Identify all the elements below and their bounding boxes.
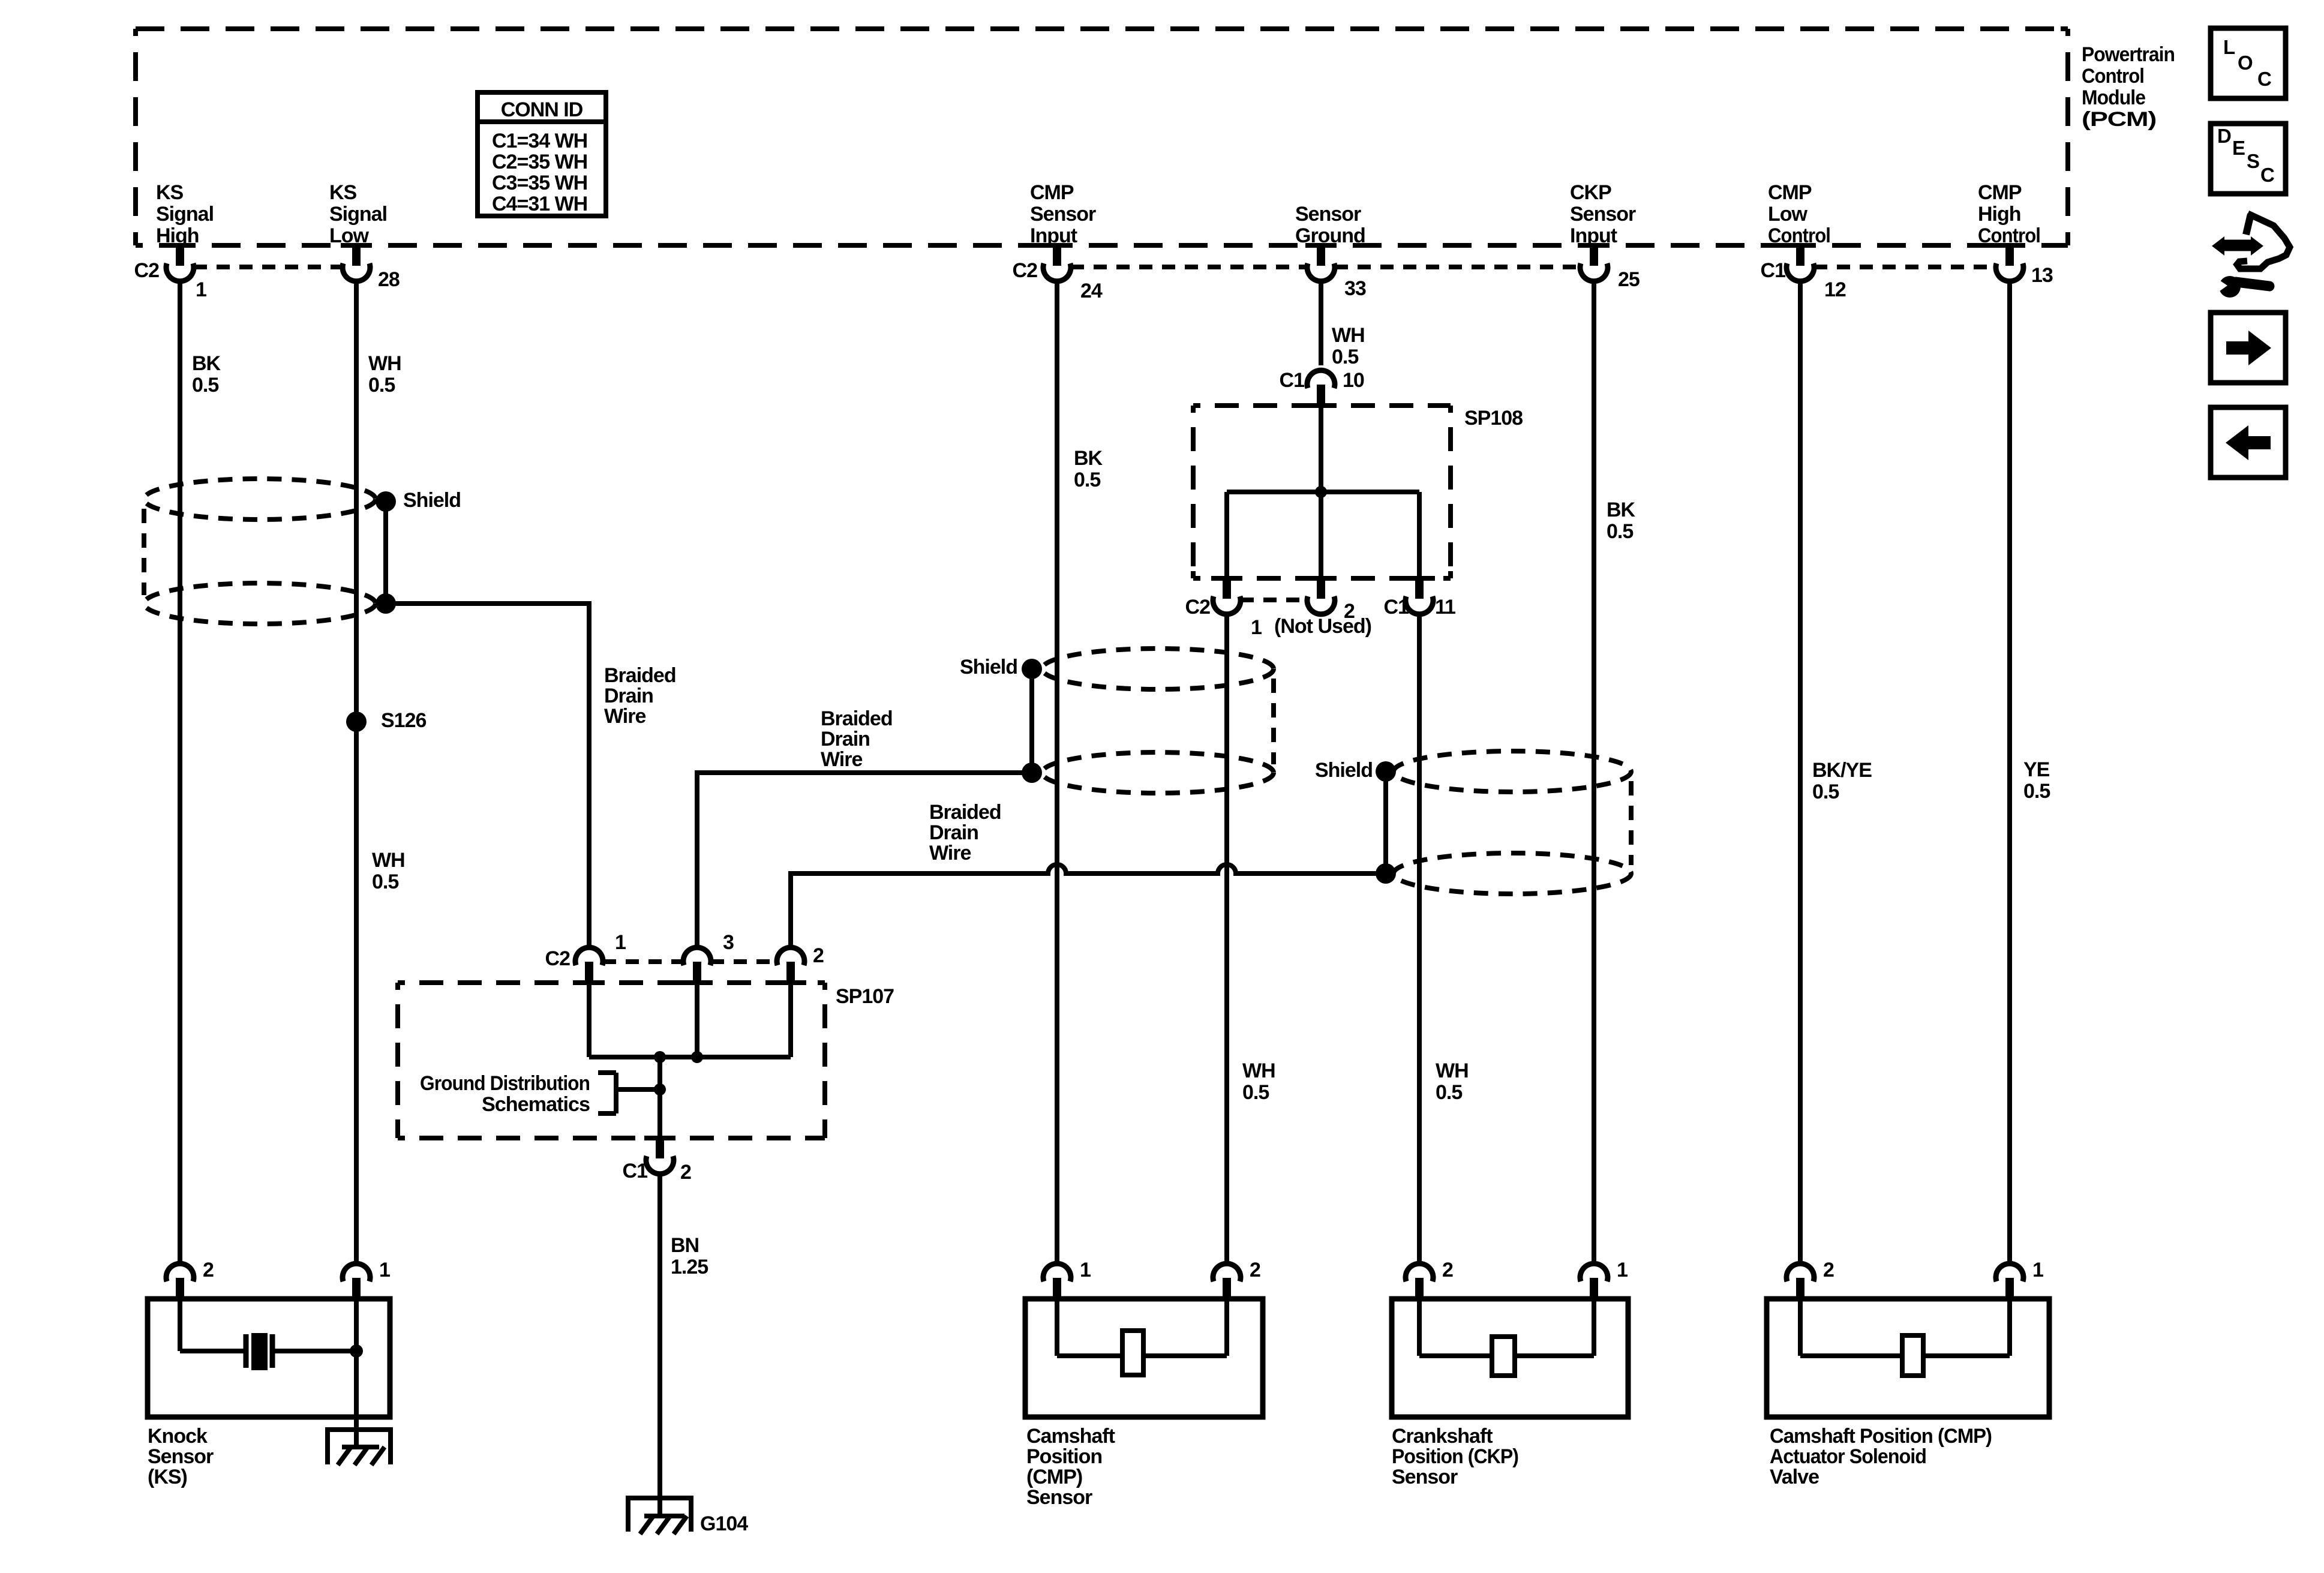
wire CMP Low Control BK/YE 0.5 (C1-12 to solenoid pin 2) [1798, 281, 1803, 1263]
svg-text:O: O [2238, 52, 2253, 74]
wire KS Signal Low WH 0.5 (28 to KS pin 1) [354, 281, 359, 1263]
wire SP107 pin1 to bus [587, 983, 591, 1057]
connector solenoid pin 2 [1786, 1263, 1814, 1301]
svg-text:Braided: Braided [929, 801, 1001, 824]
svg-text:D: D [2217, 125, 2232, 147]
svg-text:SP108: SP108 [1464, 407, 1523, 430]
svg-text:Sensor: Sensor [1392, 1466, 1458, 1488]
junction KS internal [350, 1344, 363, 1358]
svg-text:C1=34 WH: C1=34 WH [492, 130, 587, 152]
connector PCM pin 13 (CMP High Control) [1996, 243, 2023, 281]
connector PCM C2 pin 1 (KS Signal High) [166, 243, 194, 281]
svg-text:(Not Used): (Not Used) [1274, 615, 1371, 638]
svg-text:Knock: Knock [148, 1425, 208, 1448]
svg-text:Signal: Signal [156, 203, 214, 226]
node KS Signal Low label [329, 181, 387, 247]
svg-text:33: 33 [1344, 277, 1366, 300]
junction shield top (CKP) [1376, 761, 1396, 782]
wire SP108 bus to pin 11 [1417, 492, 1422, 578]
connector bar C1 pins 12-13 [1814, 265, 1996, 269]
splice pack SP108 dashed box [1193, 406, 1451, 578]
svg-text:1: 1 [379, 1259, 390, 1281]
wire SP107 pin3 to bus [695, 983, 699, 1057]
wire CMP High Control YE 0.5 (13 to solenoid pin 1) [2007, 281, 2012, 1263]
svg-text:0.5: 0.5 [2023, 780, 2050, 803]
connector bar pins 24-33-25 [1071, 265, 1307, 269]
svg-text:High: High [1978, 203, 2021, 226]
svg-text:WH: WH [1436, 1059, 1469, 1082]
icon back arrow button [2211, 407, 2286, 478]
value label BK 0.5 [192, 352, 221, 397]
svg-text:1: 1 [1251, 616, 1262, 639]
svg-text:1: 1 [1617, 1259, 1628, 1281]
svg-text:Braided: Braided [821, 707, 893, 730]
wire braided drain (CMP) to SP107 pin 3 [697, 773, 1032, 945]
svg-text:2: 2 [1250, 1259, 1260, 1281]
node Sensor Ground label [1295, 203, 1365, 247]
wire SP107 pin2 to bus [788, 983, 793, 1057]
svg-text:C1: C1 [1384, 596, 1409, 619]
shield cylinder around CMP wires [1042, 649, 1274, 793]
node CMP Sensor Input label [1030, 181, 1096, 247]
wire SP107 ground branch [657, 1057, 662, 1138]
svg-text:KS: KS [156, 181, 184, 204]
junction shield top (CMP) [1022, 659, 1042, 679]
svg-text:C2: C2 [545, 947, 571, 970]
component Knock Sensor (KS) box [148, 1299, 390, 1417]
svg-text:2: 2 [1823, 1259, 1834, 1281]
node KS Signal High label [156, 181, 214, 247]
svg-text:Shield: Shield [960, 656, 1017, 679]
connector C1 pin 2 (below SP107) [646, 1136, 674, 1174]
wire shield link (KS) [383, 502, 388, 604]
svg-text:Module: Module [2082, 86, 2145, 109]
value label WH 0.5 [1436, 1059, 1469, 1104]
solenoid internal element [1800, 1299, 2010, 1376]
svg-text:12: 12 [1824, 278, 1846, 301]
svg-text:Crankshaft: Crankshaft [1392, 1425, 1493, 1448]
svg-text:Sensor: Sensor [148, 1445, 214, 1468]
svg-text:C2: C2 [1013, 259, 1038, 282]
connector SP108 pin 2 (Not Used) [1307, 576, 1335, 614]
svg-text:C2=35 WH: C2=35 WH [492, 151, 587, 173]
svg-text:Ground Distribution: Ground Distribution [420, 1072, 590, 1095]
wire shield link (CMP) [1029, 669, 1034, 773]
svg-text:Shield: Shield [403, 489, 461, 512]
value label WH 0.5 [368, 352, 401, 397]
PCM label text [2082, 43, 2175, 131]
wire BN 1.25 to G104 [657, 1173, 662, 1496]
svg-text:CMP: CMP [1978, 181, 2022, 204]
wire WH 0.5 (SP108 C2-1 to CMP pin 2) [1224, 614, 1229, 1263]
wire WH 0.5 (SP108 C1-11 to CKP pin 2) [1417, 614, 1422, 1263]
wire Sensor Ground WH 0.5 (33 to SP108 C1-10) [1319, 281, 1323, 365]
label CMP Actuator Solenoid Valve [1770, 1425, 1992, 1488]
icon DESC button [2211, 124, 2286, 194]
svg-text:Sensor: Sensor [1570, 203, 1636, 226]
svg-text:KS: KS [329, 181, 357, 204]
svg-text:S: S [2247, 150, 2260, 172]
svg-text:2: 2 [203, 1259, 214, 1281]
wire CMP Sensor Input BK 0.5 (C2-24 to CMP pin 1) [1055, 281, 1059, 1263]
svg-text:2: 2 [1442, 1259, 1453, 1281]
wire braided drain (KS) to SP107 pin 1 [386, 604, 589, 945]
wire SP108 bus to pin 1 [1224, 492, 1229, 578]
svg-text:BK: BK [192, 352, 221, 375]
ground (KS case) [325, 1430, 393, 1465]
value label BK 0.5 [1074, 447, 1103, 491]
svg-text:WH: WH [1332, 324, 1365, 347]
svg-text:(KS): (KS) [148, 1466, 187, 1488]
svg-text:CKP: CKP [1570, 181, 1611, 204]
svg-text:C3=35 WH: C3=35 WH [492, 172, 587, 194]
svg-text:BK: BK [1607, 499, 1636, 521]
junction shield bottom (CMP) [1022, 763, 1042, 783]
label Braided Drain Wire (CMP) [821, 707, 893, 771]
svg-text:YE: YE [2023, 758, 2050, 781]
svg-text:BK/YE: BK/YE [1812, 759, 1872, 782]
svg-text:WH: WH [372, 849, 405, 872]
node CMP High Control label [1978, 181, 2040, 247]
junction ground branch / reference [654, 1083, 666, 1095]
svg-text:Control: Control [2082, 65, 2144, 88]
svg-text:2: 2 [680, 1161, 691, 1184]
junction shield bottom (KS) [376, 593, 396, 614]
svg-text:Drain: Drain [821, 728, 870, 751]
svg-text:C4=31 WH: C4=31 WH [492, 193, 587, 215]
svg-text:13: 13 [2031, 264, 2053, 287]
connector bar SP108 pins 1-2 [1241, 598, 1307, 602]
svg-text:SP107: SP107 [836, 985, 894, 1008]
svg-text:1: 1 [196, 278, 206, 301]
svg-text:1: 1 [2032, 1259, 2043, 1281]
svg-text:Wire: Wire [929, 842, 971, 864]
svg-text:CMP: CMP [1768, 181, 1812, 204]
Powertrain Control Module (PCM) dashed box [136, 29, 2068, 245]
value label WH 0.5 [1242, 1059, 1275, 1104]
connector KS pin 1 [343, 1263, 370, 1301]
wire SP108 input to bus [1319, 406, 1323, 492]
connector C1 pin 10 (above SP108) [1307, 370, 1335, 408]
svg-text:Camshaft Position (CMP): Camshaft Position (CMP) [1770, 1425, 1992, 1448]
splice S126 [346, 712, 367, 732]
icon schematic navigation (car + wrench) [2212, 214, 2290, 298]
svg-text:WH: WH [1242, 1059, 1275, 1082]
svg-text:0.5: 0.5 [372, 870, 398, 893]
svg-text:Powertrain: Powertrain [2082, 43, 2175, 66]
piezo element inside knock sensor [180, 1299, 356, 1370]
svg-text:E: E [2232, 137, 2245, 159]
svg-text:(CMP): (CMP) [1026, 1466, 1082, 1488]
wire braided drain (CKP) to SP107 pin 2, hops over CMP wires [791, 864, 1386, 945]
connector bar C2 pins 1-28 [194, 265, 343, 269]
connector PCM C1 pin 12 (CMP Low Control) [1786, 243, 1814, 281]
svg-text:CMP: CMP [1030, 181, 1074, 204]
wire shield link (CKP) [1383, 772, 1388, 873]
junction shield top (KS) [376, 491, 396, 512]
svg-text:0.5: 0.5 [1812, 781, 1839, 803]
junction SP107 bus / ground tap [654, 1051, 666, 1063]
CONN ID table [478, 92, 606, 216]
svg-text:C: C [2260, 164, 2275, 186]
svg-text:Drain: Drain [604, 685, 653, 707]
svg-text:Camshaft: Camshaft [1026, 1425, 1115, 1448]
svg-text:Valve: Valve [1770, 1466, 1819, 1488]
svg-text:Low: Low [1768, 203, 1808, 226]
connector CKP pin 1 [1580, 1263, 1608, 1301]
svg-text:1: 1 [615, 931, 626, 954]
CKP sensor internal element [1419, 1299, 1594, 1376]
icon forward arrow button [2211, 313, 2286, 383]
svg-text:Drain: Drain [929, 821, 978, 844]
svg-text:1.25: 1.25 [671, 1256, 708, 1278]
svg-text:C2: C2 [134, 259, 160, 282]
svg-text:Schematics: Schematics [482, 1093, 590, 1116]
label Crankshaft Position (CKP) Sensor [1392, 1425, 1518, 1488]
svg-text:C1: C1 [1761, 259, 1786, 282]
svg-text:(PCM): (PCM) [2082, 108, 2156, 131]
value label WH 0.5 (below S126) [372, 849, 405, 893]
value label BN 1.25 [671, 1234, 708, 1278]
node CKP Sensor Input label [1570, 181, 1636, 247]
value label BK/YE 0.5 [1812, 759, 1872, 803]
svg-text:C1: C1 [623, 1160, 648, 1182]
svg-text:25: 25 [1618, 268, 1640, 291]
junction SP107 bus pin3 [691, 1051, 703, 1063]
label Knock Sensor (KS) [148, 1425, 214, 1488]
component Camshaft Position (CMP) Sensor box [1025, 1299, 1263, 1417]
connector SP107 pin 2 [777, 947, 804, 985]
connector SP107 pin 3 [683, 947, 711, 985]
label Braided Drain Wire (CKP) [929, 801, 1001, 864]
svg-text:0.5: 0.5 [1242, 1081, 1269, 1104]
junction SP108 bus [1315, 486, 1327, 498]
svg-text:Sensor: Sensor [1030, 203, 1096, 226]
svg-text:BN: BN [671, 1234, 699, 1257]
svg-text:L: L [2223, 36, 2235, 58]
value label WH 0.5 [1332, 324, 1365, 368]
svg-text:WH: WH [368, 352, 401, 375]
svg-text:Position (CKP): Position (CKP) [1392, 1445, 1518, 1468]
svg-text:0.5: 0.5 [1332, 346, 1358, 368]
CMP sensor internal element [1057, 1299, 1227, 1375]
label Camshaft Position (CMP) Sensor [1026, 1425, 1115, 1509]
svg-text:Signal: Signal [329, 203, 387, 226]
shield cylinder around KS wires [144, 479, 376, 624]
svg-text:Braided: Braided [604, 664, 676, 687]
value label YE 0.5 [2023, 758, 2050, 803]
node CMP Low Control label [1768, 181, 1830, 247]
connector solenoid pin 1 [1996, 1263, 2023, 1301]
connector bar SP107 pins 1-3-2 [603, 959, 683, 964]
connector CMP pin 2 [1213, 1263, 1241, 1301]
svg-text:G104: G104 [700, 1512, 748, 1535]
connector CKP pin 2 [1406, 1263, 1433, 1301]
svg-text:Actuator Solenoid: Actuator Solenoid [1770, 1445, 1926, 1468]
label Braided Drain Wire (KS) [604, 664, 676, 728]
wire SP108 bus to pin 2 [1319, 492, 1323, 578]
svg-text:Wire: Wire [821, 748, 862, 771]
wire KS Signal High BK 0.5 (C2-1 to KS pin 2) [178, 281, 182, 1263]
svg-text:28: 28 [378, 268, 400, 291]
connector PCM C2 pin 24 (CMP Sensor Input) [1043, 243, 1071, 281]
svg-text:0.5: 0.5 [1436, 1081, 1462, 1104]
svg-text:0.5: 0.5 [1607, 520, 1633, 543]
svg-text:C1: C1 [1280, 369, 1305, 392]
svg-text:Wire: Wire [604, 705, 645, 728]
svg-text:Shield: Shield [1315, 759, 1373, 782]
svg-text:24: 24 [1080, 280, 1103, 302]
svg-text:1: 1 [1080, 1259, 1091, 1281]
svg-text:S126: S126 [381, 709, 426, 732]
wire KS pin1 to case ground [354, 1299, 359, 1447]
svg-text:C2: C2 [1185, 596, 1211, 619]
svg-text:Low: Low [329, 224, 370, 247]
svg-text:Position: Position [1026, 1445, 1102, 1468]
shield cylinder around CKP wires [1394, 751, 1631, 894]
connector PCM pin 28 (KS Signal Low) [343, 243, 370, 281]
svg-text:Sensor: Sensor [1295, 203, 1361, 226]
connector CMP pin 1 [1043, 1263, 1071, 1301]
junction shield bottom (CKP) [1376, 863, 1396, 884]
reference bracket Ground Distribution Schematics [598, 1073, 660, 1113]
svg-text:BK: BK [1074, 447, 1103, 470]
splice pack SP107 dashed box [398, 983, 825, 1138]
connector SP108 C1 pin 11 [1406, 576, 1433, 614]
svg-text:2: 2 [813, 944, 824, 967]
wire CKP Sensor Input BK 0.5 (25 to CKP pin 1) [1592, 281, 1596, 1263]
component CMP Actuator Solenoid Valve box [1767, 1299, 2049, 1417]
value label BK 0.5 [1607, 499, 1636, 543]
wire SP108 bus [1227, 490, 1419, 494]
connector PCM pin 33 (Sensor Ground) [1307, 243, 1335, 281]
svg-text:0.5: 0.5 [1074, 469, 1100, 491]
icon LOC button [2211, 28, 2286, 98]
svg-text:C: C [2257, 68, 2272, 90]
svg-text:0.5: 0.5 [368, 374, 395, 397]
svg-text:Ground: Ground [1295, 224, 1365, 247]
svg-text:CONN ID: CONN ID [501, 98, 583, 121]
svg-text:Sensor: Sensor [1026, 1486, 1092, 1509]
svg-text:11: 11 [1435, 596, 1455, 619]
connector SP108 C2 pin 1 [1213, 576, 1241, 614]
label Ground Distribution Schematics [420, 1072, 590, 1116]
wire SP107 bus [589, 1055, 791, 1059]
connector SP107 C2 pin 1 [575, 947, 603, 985]
component Crankshaft Position (CKP) Sensor box [1392, 1299, 1628, 1417]
svg-text:10: 10 [1343, 369, 1364, 392]
ground G104 [626, 1496, 693, 1534]
connector KS pin 2 [166, 1263, 194, 1301]
svg-text:0.5: 0.5 [192, 374, 218, 397]
svg-text:3: 3 [723, 931, 734, 954]
connector PCM pin 25 (CKP Sensor Input) [1580, 243, 1608, 281]
